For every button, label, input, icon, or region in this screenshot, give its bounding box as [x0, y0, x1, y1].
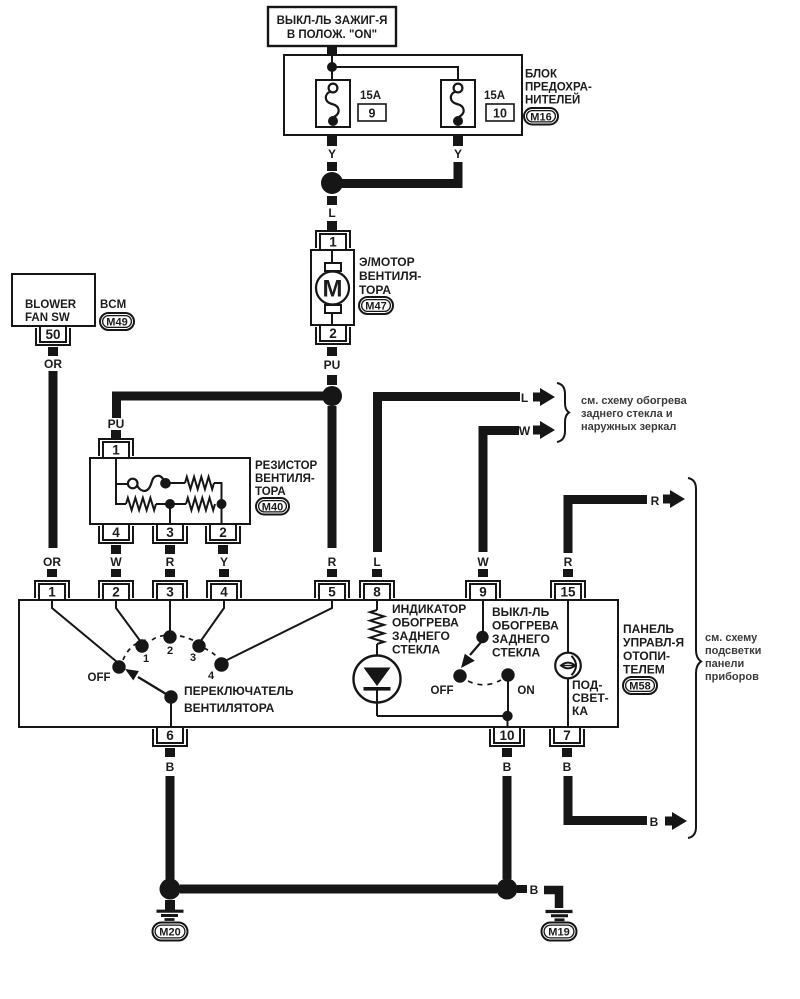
defogger contact OFF	[453, 669, 466, 682]
wiper common node	[164, 690, 177, 703]
wire from fuse 10 to splice	[342, 162, 458, 184]
wire stub below fuse 9	[327, 135, 337, 146]
indicator caption ИНДИКАТОР ОБОГРЕВА ЗАДНЕГО СТЕКЛА	[392, 602, 466, 657]
junction node in fuse block	[327, 62, 337, 72]
fan switch wire pin2 to contact 1	[116, 600, 141, 642]
wire stub below fuse 10	[453, 135, 463, 146]
wire node to pin 10	[507, 716, 509, 727]
defogger switch caption ВЫКЛ-ЛЬ ОБОГРЕВА ЗАДНЕГО СТЕКЛА	[492, 605, 559, 660]
svg-text:ВЫКЛ-ЛЬ: ВЫКЛ-ЛЬ	[492, 605, 550, 619]
ground symbol M19	[546, 912, 573, 920]
svg-text:2: 2	[219, 525, 227, 540]
harness arrow L	[533, 388, 555, 406]
svg-text:ВЕНТИЛЯТОРА: ВЕНТИЛЯТОРА	[184, 701, 275, 715]
svg-text:8: 8	[373, 585, 381, 600]
svg-text:PU: PU	[324, 358, 341, 372]
wire elbow to M19 ground	[544, 890, 559, 908]
ground splice node M19 side	[497, 879, 518, 900]
contact 1	[135, 639, 148, 652]
blower motor body	[311, 250, 354, 325]
wire R from panel pin 15 to harness arrow	[568, 500, 647, 554]
fuse block box M16 БЛОК ПРЕДОХРАНИТЕЛЕЙ	[284, 55, 522, 135]
resistor caption РЕЗИСТОР ВЕНТИЛЯТОРА	[255, 460, 318, 498]
right node (pin 2)	[217, 499, 227, 509]
svg-text:M47: M47	[365, 301, 386, 313]
svg-text:W: W	[519, 424, 531, 438]
svg-text:3: 3	[190, 652, 196, 664]
svg-text:1: 1	[329, 235, 337, 250]
svg-text:ТОРА: ТОРА	[255, 486, 286, 498]
svg-text:наружных зеркал: наружных зеркал	[581, 421, 676, 433]
svg-text:Y: Y	[220, 555, 228, 569]
wire stub below resistor pin 4	[111, 545, 121, 554]
panel pin 2	[99, 581, 133, 600]
svg-text:W: W	[110, 555, 122, 569]
svg-text:ПОД-: ПОД-	[572, 678, 602, 692]
wire LED to ground node	[377, 715, 507, 717]
svg-text:M49: M49	[106, 317, 127, 329]
resistor element (bottom right)	[186, 498, 215, 510]
svg-text:W: W	[477, 555, 489, 569]
svg-text:Э/МОТОР: Э/МОТОР	[359, 255, 415, 269]
resistor internal drop to pin 3	[169, 504, 171, 524]
fan switch caption ПЕРЕКЛЮЧАТЕЛЬ ВЕНТИЛЯТОРА	[184, 684, 294, 715]
svg-text:B: B	[530, 883, 539, 897]
svg-text:В ПОЛОЖ. "ON": В ПОЛОЖ. "ON"	[287, 29, 377, 41]
svg-text:ТЕЛЕМ: ТЕЛЕМ	[623, 663, 665, 677]
svg-text:ОБОГРЕВА: ОБОГРЕВА	[392, 616, 459, 630]
svg-text:FAN SW: FAN SW	[25, 312, 70, 324]
svg-text:7: 7	[563, 728, 571, 743]
svg-text:M: M	[323, 276, 343, 303]
resistor pin 4	[99, 524, 133, 543]
wire stub below pin 10	[502, 748, 512, 757]
svg-text:ВЕНТИЛЯ-: ВЕНТИЛЯ-	[359, 269, 421, 283]
svg-text:ВЕНТИЛЯ-: ВЕНТИЛЯ-	[255, 473, 315, 485]
svg-text:ПЕРЕКЛЮЧАТЕЛЬ: ПЕРЕКЛЮЧАТЕЛЬ	[184, 684, 294, 698]
fuse number box 10	[486, 104, 514, 121]
panel pin 5	[315, 581, 349, 600]
wire top resistor to pin 2 node	[214, 483, 222, 504]
ground id M20	[153, 923, 188, 941]
resistor pin 3	[153, 524, 187, 543]
svg-text:OR: OR	[44, 357, 62, 371]
motor brush top	[325, 263, 341, 271]
svg-text:10: 10	[499, 728, 514, 743]
dashed link OFF-ON	[468, 680, 501, 685]
svg-text:OFF: OFF	[431, 685, 454, 697]
thermal fuse (circle + curve + dot)	[128, 476, 171, 491]
fuse 9 (15A)	[316, 80, 350, 127]
svg-text:Y: Y	[454, 147, 462, 161]
svg-text:M40: M40	[262, 501, 283, 513]
svg-text:B: B	[166, 760, 175, 774]
svg-text:OFF: OFF	[88, 672, 111, 684]
wire ON contact down to ground node	[507, 679, 509, 716]
defogger contact ON	[501, 668, 514, 681]
panel pin 8	[360, 581, 394, 600]
svg-text:BCM: BCM	[100, 299, 126, 311]
wire dash above panel pin 9	[478, 569, 488, 577]
wire stub above resistor pin 1	[111, 430, 121, 438]
note text: см. схему подсветки панели приборов	[705, 632, 761, 683]
svg-text:РЕЗИСТОР: РЕЗИСТОР	[255, 460, 318, 472]
svg-text:панели: панели	[705, 658, 744, 670]
resistor pin 1	[99, 439, 133, 458]
wire dash below splice	[327, 196, 337, 205]
dashed selector arc	[123, 635, 218, 660]
svg-text:ОТОПИ-: ОТОПИ-	[623, 649, 670, 663]
BCM pin 50	[36, 326, 70, 345]
svg-text:заднего стекла и: заднего стекла и	[581, 408, 673, 420]
svg-text:B: B	[563, 760, 572, 774]
svg-text:ПАНЕЛЬ: ПАНЕЛЬ	[623, 622, 674, 636]
note text: см. схему обогрева заднего стекла и наружных зеркал	[581, 395, 688, 433]
wire B pin 6 to ground splice	[166, 776, 175, 880]
wire R from PU splice to panel pin 5	[328, 406, 337, 548]
connector id M58	[623, 677, 657, 694]
panel pin 6	[153, 727, 187, 746]
resistor internal wire from pin 1	[116, 458, 126, 504]
svg-text:PU: PU	[108, 417, 125, 431]
svg-text:2: 2	[167, 645, 173, 657]
fan resistor box	[90, 458, 250, 524]
wire thermal fuse to top resistor	[169, 482, 185, 484]
wire branch to fuse 10	[332, 67, 458, 80]
wire dash above panel pin 15	[563, 569, 573, 577]
indicator series resistor	[370, 610, 384, 644]
svg-text:2: 2	[329, 326, 337, 341]
resistor pin 2	[206, 524, 240, 543]
svg-text:15: 15	[560, 585, 576, 600]
svg-text:СТЕКЛА: СТЕКЛА	[392, 643, 440, 657]
ground id M19	[542, 923, 577, 941]
svg-text:M19: M19	[548, 927, 569, 939]
svg-text:M16: M16	[530, 111, 551, 123]
svg-text:2: 2	[112, 585, 120, 600]
wire dash above panel pin 4	[219, 569, 229, 577]
svg-text:4: 4	[220, 585, 228, 600]
ground link wire	[180, 885, 497, 894]
svg-text:9: 9	[479, 585, 487, 600]
svg-text:R: R	[564, 555, 573, 569]
svg-text:10: 10	[493, 107, 507, 121]
svg-text:ПРЕДОХРА-: ПРЕДОХРА-	[525, 82, 592, 94]
illumination lamp	[555, 653, 581, 679]
svg-text:ON: ON	[517, 685, 534, 697]
brace see rear window defogger scheme	[557, 383, 569, 442]
motor brush bottom	[325, 305, 341, 313]
wire wiper to pin 6	[170, 700, 172, 727]
svg-text:15A: 15A	[484, 90, 505, 102]
fuse number box 9	[358, 104, 386, 121]
fan switch wiper arm with arrowhead	[125, 669, 171, 697]
wire PU branch to resistor pin 1	[117, 396, 333, 418]
svg-text:КА: КА	[572, 704, 588, 718]
svg-text:9: 9	[369, 107, 376, 121]
wire W from panel pin 9 to harness arrow	[483, 431, 519, 553]
LED indicator (circle, triangle, bar)	[354, 656, 401, 717]
wire panel pin 8 to indicator resistor	[376, 600, 378, 610]
wire to middle node	[156, 503, 186, 505]
svg-text:ИНДИКАТОР: ИНДИКАТОР	[392, 602, 466, 616]
splice node below fuses	[321, 172, 343, 194]
svg-text:ВЫКЛ-ЛЬ ЗАЖИГ-Я: ВЫКЛ-ЛЬ ЗАЖИГ-Я	[277, 15, 388, 27]
svg-text:R: R	[651, 494, 660, 508]
wire dash above panel pin 5	[327, 569, 337, 577]
motor pin 2	[316, 325, 350, 344]
panel pin 4	[207, 581, 241, 600]
resistor internal drop to pin 2	[221, 504, 223, 524]
middle node (pin 3)	[165, 499, 175, 509]
panel pin 15	[551, 581, 585, 600]
wire dash Y left	[327, 162, 337, 171]
wire B pin 10 to ground splice	[503, 776, 512, 879]
svg-text:БЛОК: БЛОК	[525, 69, 558, 81]
wire dash above PU splice	[327, 375, 337, 385]
svg-text:подсветки: подсветки	[705, 645, 761, 657]
ground symbol M20	[157, 900, 184, 920]
svg-text:L: L	[328, 206, 335, 220]
svg-text:L: L	[521, 391, 528, 405]
svg-text:СВЕТ-: СВЕТ-	[572, 691, 609, 705]
harness arrow B	[665, 812, 687, 830]
harness arrow W	[533, 421, 555, 439]
svg-text:4: 4	[208, 670, 215, 682]
wire stub below resistor pin 3	[165, 545, 175, 554]
svg-text:приборов: приборов	[705, 671, 759, 683]
panel caption ПАНЕЛЬ УПРАВЛ-Я ОТОПИТЕЛЕМ	[623, 622, 684, 677]
wire panel pin 15 to lamp	[567, 600, 569, 653]
motor circle M	[316, 272, 349, 305]
connector id M16	[524, 108, 558, 125]
motor pin 1	[316, 231, 350, 250]
svg-text:УПРАВЛ-Я: УПРАВЛ-Я	[623, 636, 684, 650]
svg-text:1: 1	[143, 653, 149, 665]
svg-text:4: 4	[112, 525, 120, 540]
wire panel pin 9 to defogger switch	[482, 600, 484, 633]
wire OR from BCM to fan switch pin 1	[49, 371, 58, 548]
svg-text:1: 1	[48, 585, 56, 600]
svg-text:R: R	[328, 555, 337, 569]
fuse 10 (15A)	[441, 80, 475, 127]
svg-text:см. схему: см. схему	[705, 632, 758, 644]
BLOWER FAN SW box (BCM M49)	[12, 274, 95, 326]
connector id M49	[100, 313, 134, 330]
wire dash above panel pin 1	[47, 569, 57, 577]
wire dash above panel pin 2	[111, 569, 121, 577]
wire dash above panel pin 8	[372, 569, 382, 577]
wire stub ignition box to fuse block	[327, 46, 337, 56]
wire stub below motor pin 2	[327, 347, 337, 356]
motor caption Э/МОТОР ВЕНТИЛЯТОРА	[359, 255, 421, 297]
svg-text:Y: Y	[328, 147, 336, 161]
contact 4	[214, 657, 228, 671]
svg-text:ЗАДНЕГО: ЗАДНЕГО	[492, 632, 550, 646]
wire resistor to LED	[376, 644, 378, 667]
wire stub below pin 50	[48, 347, 58, 356]
motor internal lead bottom	[331, 313, 333, 325]
wire dash to M19 ground	[517, 885, 527, 893]
panel pin 3	[153, 581, 187, 600]
svg-text:ОБОГРЕВА: ОБОГРЕВА	[492, 619, 559, 633]
svg-text:3: 3	[166, 585, 174, 600]
svg-text:6: 6	[166, 728, 174, 743]
defogger switch common contact	[476, 631, 488, 643]
heater control panel box M58	[19, 600, 618, 727]
svg-text:СТЕКЛА: СТЕКЛА	[492, 646, 540, 660]
svg-text:15A: 15A	[360, 90, 381, 102]
panel pin 10	[490, 727, 524, 746]
svg-text:OR: OR	[43, 555, 61, 569]
brace see instrument panel illumination scheme	[688, 478, 701, 838]
wire stub below pin 6	[165, 748, 175, 757]
svg-text:НИТЕЛЕЙ: НИТЕЛЕЙ	[525, 94, 580, 107]
fan switch wire pin3 to contact 2	[169, 600, 171, 632]
svg-text:B: B	[650, 815, 659, 829]
svg-text:ЗАДНЕГО: ЗАДНЕГО	[392, 629, 450, 643]
wire stub below pin 7	[562, 748, 572, 757]
ignition switch box: ВЫКЛ-ЛЬ ЗАЖИГ-Я В ПОЛОЖ. ON	[268, 7, 396, 46]
svg-text:M20: M20	[159, 927, 180, 939]
fan switch wire pin5 to contact 4	[225, 600, 332, 661]
motor internal lead top	[331, 250, 333, 263]
wire dash above panel pin 3	[165, 569, 175, 577]
contact OFF	[112, 660, 125, 673]
svg-text:L: L	[373, 555, 380, 569]
panel pin 1	[35, 581, 69, 600]
panel pin 9	[466, 581, 500, 600]
resistor element (bottom left)	[126, 498, 156, 510]
wire L from panel pin 8 to harness arrow	[378, 397, 521, 553]
wire dash above motor pin 1	[327, 221, 337, 230]
svg-text:B: B	[503, 760, 512, 774]
contact 2	[163, 630, 176, 643]
fan switch wire pin1 to OFF contact	[52, 600, 117, 662]
svg-text:M58: M58	[629, 681, 650, 693]
contact 3	[192, 639, 205, 652]
wire stub below resistor pin 2	[218, 545, 228, 554]
connector id M40	[256, 498, 289, 515]
fan switch wire pin4 to contact 3	[200, 600, 224, 642]
PU splice node	[322, 386, 342, 406]
svg-text:R: R	[166, 555, 175, 569]
svg-text:3: 3	[166, 525, 174, 540]
branch to thermal fuse	[116, 483, 129, 485]
svg-text:BLOWER: BLOWER	[25, 299, 77, 311]
wire B pin 7 to harness arrow	[568, 776, 647, 821]
svg-text:5: 5	[328, 585, 336, 600]
wire lamp to pin 7	[567, 679, 569, 728]
fuse block caption	[525, 69, 592, 107]
defogger switch blade with arrowhead	[461, 641, 482, 668]
svg-text:50: 50	[45, 327, 60, 342]
ground node (LED + switch)	[502, 711, 512, 721]
harness arrow R	[663, 490, 685, 508]
panel pin 7	[550, 727, 584, 746]
lamp caption ПОДСВЕТКА	[572, 678, 609, 718]
resistor element (top)	[185, 477, 214, 489]
svg-text:1: 1	[112, 443, 120, 458]
connector id M47	[359, 297, 393, 314]
ground splice node M20	[160, 879, 181, 900]
svg-text:см. схему обогрева: см. схему обогрева	[581, 395, 688, 407]
wire from top into fuse 9	[331, 56, 333, 80]
svg-text:ТОРА: ТОРА	[359, 283, 391, 297]
